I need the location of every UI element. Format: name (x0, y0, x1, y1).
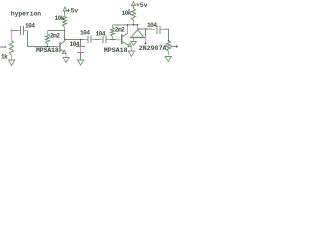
resistor R5 10k (stage 2 load) (132, 6, 136, 26)
svg-text:10k: 10k (55, 15, 65, 22)
transistor Q2 MPSA18 (116, 25, 132, 50)
resistor R1 10k (stage 1 collector load) (63, 17, 67, 28)
svg-text:10k: 10k (122, 10, 132, 17)
input wire (12, 30, 19, 32)
ground (Q3) (131, 42, 137, 46)
svg-text:2m2: 2m2 (115, 26, 125, 33)
node B junction (64, 39, 66, 41)
junction 10k/rail (133, 24, 135, 26)
svg-text:104: 104 (96, 31, 106, 38)
wire collector vertical (stage1) (64, 31, 66, 40)
wire stage2 base net (110, 39, 116, 41)
cue dot near 18k (165, 45, 167, 47)
ground (Q2 emitter) (128, 51, 134, 57)
ground (18k) (165, 57, 171, 62)
junction stage2 feedback (112, 39, 114, 41)
power +5v symbol (stage 1) (63, 7, 67, 17)
transistor Q3 2N2907A (PNP) (130, 25, 145, 41)
pin 10k bottom (64, 27, 66, 31)
capacitor C4 104 (coupling B) (99, 36, 110, 44)
capacitor C1 104 (input) (18, 26, 28, 35)
wire between caps (95, 39, 99, 41)
ground (1k) (9, 60, 15, 66)
svg-text:104: 104 (147, 22, 157, 29)
stray pin mark near 10k label (128, 9, 130, 11)
wire feedback top (stage1) (48, 30, 65, 32)
junction Q3 emitter/rail (137, 24, 139, 26)
capacitor C5 104 (output) (152, 26, 165, 34)
dangling net bottom-left (0, 46, 5, 48)
ground (Q1 emitter) (63, 58, 69, 63)
wire collector net (stage1) (65, 39, 85, 41)
junction Q2 collector/rail (127, 24, 129, 26)
junction base/feedback (47, 46, 49, 48)
resistor R4 2m2 (stage 2 feedback) (111, 25, 115, 40)
svg-text:104: 104 (70, 41, 80, 48)
svg-text:hyperion: hyperion (11, 10, 41, 17)
svg-text:104: 104 (25, 23, 35, 30)
wire output cap to 18k (165, 29, 169, 40)
svg-text:1k: 1k (1, 54, 8, 61)
resistor R3 1k (input bias) (10, 31, 14, 60)
svg-text:MPSA18: MPSA18 (104, 47, 128, 54)
svg-text:+5v: +5v (67, 8, 79, 15)
svg-text:MPSA18: MPSA18 (36, 47, 59, 54)
output stub wire (171, 46, 177, 48)
svg-text:2m2: 2m2 (50, 33, 60, 40)
wire input cap to base (28, 31, 57, 47)
transistor Q1 MPSA18 (56, 40, 66, 58)
capacitor C2 104 (filter to ground) (76, 40, 85, 60)
svg-text:2N2907A: 2N2907A (139, 45, 167, 52)
capacitor C3 104 (coupling A) (84, 36, 95, 44)
ground (filter cap) (78, 60, 84, 65)
node A: collector/feedback corner (stage 1) (64, 30, 66, 32)
cue on base wire (34, 46, 36, 48)
junction filter cap (80, 39, 82, 41)
net R (base/output net) (138, 28, 152, 44)
input cue (11, 30, 13, 32)
resistor R6 18k (output load) (167, 41, 171, 55)
power +5v symbol (stage 2) (132, 2, 136, 6)
wire stage2 collector rail (113, 24, 138, 26)
svg-text:+5v: +5v (136, 2, 148, 9)
resistor R2 2m2 (stage 1 feedback) (46, 31, 50, 47)
svg-text:104: 104 (80, 30, 90, 37)
